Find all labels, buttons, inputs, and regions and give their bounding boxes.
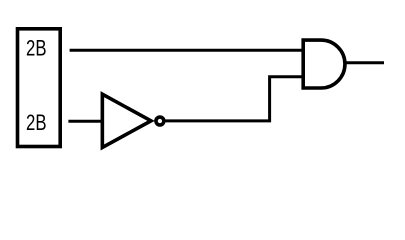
inverter U1 (NOT gate triangle)	[102, 94, 151, 147]
wire: top 2B to AND gate input A	[70, 49, 303, 52]
svg-text:2B: 2B	[26, 36, 47, 61]
inverter U1 bubble	[156, 117, 164, 125]
wire: inverter output to AND gate input B (elbow up)	[165, 77, 303, 121]
svg-text:2B: 2B	[26, 110, 47, 135]
wire: AND gate output	[344, 61, 384, 64]
wire: bottom 2B to inverter input	[68, 120, 102, 123]
AND gate U2	[303, 40, 345, 88]
input box (2B source)	[18, 29, 61, 147]
